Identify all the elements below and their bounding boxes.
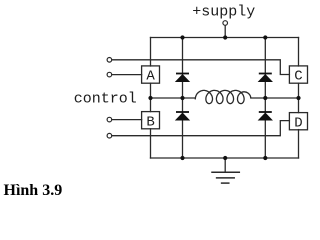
junction dot top rail left diode	[180, 35, 184, 39]
inductor L1 motor winding	[195, 90, 251, 103]
junction dot right diode mid wire	[263, 96, 267, 100]
wire control 2 to switch A	[112, 74, 142, 76]
svg-text:control: control	[74, 91, 137, 108]
wire switch B to bottom rail	[150, 129, 152, 158]
svg-text:A: A	[146, 69, 155, 85]
wire control 4 to switch D	[112, 121, 290, 136]
wire left bridge rail upper (top rail to switch A)	[150, 38, 152, 67]
svg-text:D: D	[294, 115, 302, 131]
terminal circle supply	[223, 21, 228, 26]
diode D1 upper left	[176, 75, 189, 82]
junction dot top rail right diode	[263, 35, 267, 39]
wire ground tap	[224, 158, 226, 172]
wire top supply rail	[151, 37, 299, 39]
junction dot left diode mid wire	[180, 96, 184, 100]
wire left diode leg	[182, 38, 184, 159]
wire control 3 to switch B	[112, 119, 142, 121]
terminal circle control 3	[107, 117, 112, 122]
wire mid-left node to winding	[151, 97, 196, 99]
diode D2 lower left	[176, 113, 189, 120]
junction dot C/D midpoint	[296, 96, 300, 100]
wire supply terminal drop	[224, 26, 226, 38]
switch box A	[142, 66, 160, 83]
diode D3 upper right	[259, 75, 272, 82]
junction dot top rail supply	[223, 35, 227, 39]
svg-text:Hình 3.9: Hình 3.9	[4, 182, 63, 199]
terminal circle control 1	[107, 58, 112, 63]
wire control 1 to switch C	[112, 60, 290, 75]
svg-text:C: C	[294, 69, 302, 85]
wire right diode leg	[264, 38, 266, 159]
wire right bridge rail upper (top rail to switch C)	[298, 38, 300, 67]
switch box D	[289, 113, 307, 130]
switch box B	[142, 112, 160, 129]
wire switch A to A/B junction	[150, 83, 152, 98]
switch box C	[289, 66, 307, 83]
junction dot bottom rail right diode	[263, 156, 267, 160]
junction dot A/B midpoint	[148, 96, 152, 100]
wire A/B junction to switch B	[150, 98, 152, 112]
terminal circle control 2	[107, 72, 112, 77]
svg-text:B: B	[146, 114, 154, 130]
diode D4 lower right	[259, 113, 272, 120]
wire bottom ground rail	[151, 157, 299, 159]
wire winding to mid-right node	[251, 97, 299, 99]
terminal circle control 4	[107, 133, 112, 138]
wire switch D to bottom rail	[298, 130, 300, 158]
ground symbol	[212, 172, 239, 183]
junction dot bottom rail left diode	[180, 156, 184, 160]
svg-text:+supply: +supply	[192, 4, 255, 21]
junction dot bottom rail ground	[223, 156, 227, 160]
wire switch C to C/D junction	[298, 83, 300, 112]
